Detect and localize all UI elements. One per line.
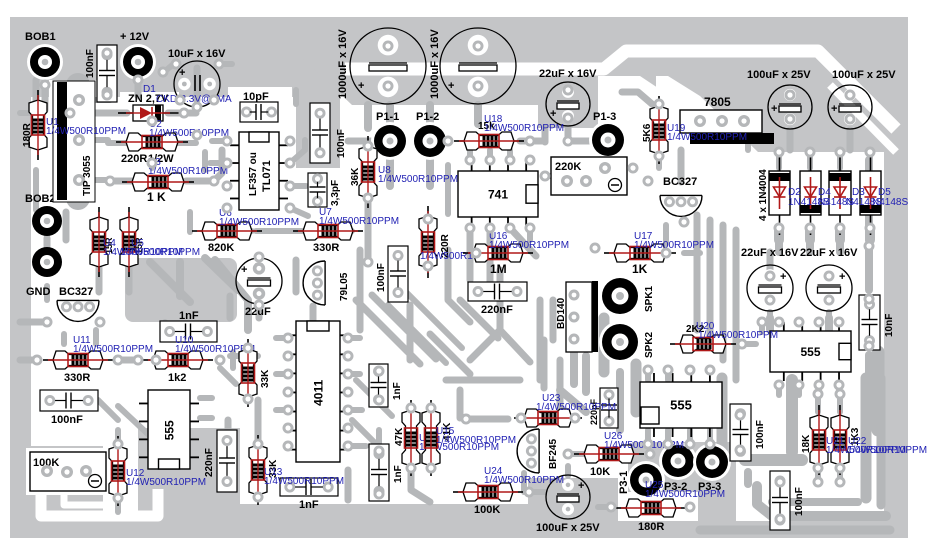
regulator 7805 — [680, 110, 762, 133]
wire segment 3 — [135, 78, 142, 96]
wire segment 77 — [20, 357, 37, 364]
wire segment 155 — [202, 152, 208, 170]
svg-text:1/4W500R10PPM: 1/4W500R10PPM — [484, 475, 564, 486]
svg-text:100nF: 100nF — [85, 49, 96, 78]
wire segment 31 — [215, 260, 248, 330]
wire segment 147 — [61, 334, 67, 344]
via pad (348,446) — [343, 441, 354, 452]
svg-text:+: + — [179, 67, 185, 79]
pad P1-3 — [589, 121, 627, 159]
via pad (118,498) — [113, 493, 124, 504]
resistor U5 — [120, 207, 138, 277]
wire segment 179 — [806, 240, 814, 252]
svg-text:SPK1: SPK1 — [644, 285, 655, 312]
wire segment 153 — [63, 212, 70, 240]
capacitor 10uF 16V — [174, 61, 220, 107]
wire segment 23 — [300, 228, 352, 234]
wire segment 36 — [467, 150, 473, 160]
via pad (779,322) — [774, 317, 785, 328]
svg-text:100nF: 100nF — [794, 487, 805, 516]
svg-text:1k2: 1k2 — [168, 372, 186, 384]
via pad (163,72) — [158, 67, 169, 78]
svg-text:220K: 220K — [555, 161, 581, 173]
via pad (118,360) — [113, 355, 124, 366]
via pad (288,410) — [283, 405, 294, 416]
wire segment 170 — [787, 130, 794, 150]
wire segment 63 — [407, 305, 414, 360]
trimmer 100K — [30, 452, 106, 491]
copper plane around big caps — [302, 50, 656, 128]
via pad (829,300) — [824, 295, 835, 306]
via pad (476,253) — [471, 248, 482, 259]
wire segment 51 — [837, 152, 843, 160]
wire segment 35 — [44, 238, 51, 246]
svg-text:1K: 1K — [632, 262, 648, 276]
wire segment 172 — [767, 312, 773, 318]
via pad (810,152) — [805, 147, 816, 158]
resistor U17 1K — [604, 244, 676, 262]
via pad (227,141) — [222, 136, 233, 147]
svg-text:+ 12V: + 12V — [120, 31, 150, 43]
wire segment 104 — [836, 385, 842, 395]
wire segment 109 — [865, 160, 873, 240]
wire segment 92 — [598, 504, 611, 510]
via pad (107,95) — [102, 90, 113, 101]
wire segment 154 — [187, 212, 193, 232]
wire segment 102 — [796, 385, 802, 395]
via pad (742,344) — [737, 339, 748, 350]
pad P1-1 — [371, 122, 409, 160]
via pad (348,428) — [343, 423, 354, 434]
via pad (648,370) — [643, 365, 654, 376]
via pad (70,113) — [65, 108, 76, 119]
via pad (770,300) — [765, 295, 776, 306]
wire segment 140 — [352, 420, 380, 448]
wire segment 143 — [256, 304, 263, 318]
timer 555 middle — [640, 382, 722, 428]
via pad (288,428) — [283, 423, 294, 434]
resistor U20 2K2 — [670, 335, 736, 353]
svg-text:1/4W500R10PPM: 1/4W500R10PPM — [319, 216, 399, 227]
wire segment 42 — [545, 173, 551, 179]
wire segment 168 — [678, 150, 685, 182]
via pad (466,419) — [461, 414, 472, 425]
svg-text:79L05: 79L05 — [339, 272, 350, 301]
capacitor 3.3pF — [308, 173, 327, 207]
resistor U14 47K — [402, 400, 420, 476]
svg-text:+: + — [241, 264, 247, 276]
via pad (568,118) — [563, 113, 574, 124]
via pad (428,266) — [423, 261, 434, 272]
via pad (248,399) — [243, 394, 254, 405]
resistor U15 41K — [422, 400, 440, 476]
wire segment 116 — [757, 486, 886, 516]
pad SPK1 — [599, 275, 641, 317]
capacitor 22uF 16V top — [546, 82, 590, 126]
white pocket TIP3055 — [49, 80, 98, 140]
capacitor 220nF mid — [468, 282, 527, 301]
pad BOB1 — [27, 44, 63, 80]
svg-text:180R: 180R — [638, 521, 664, 533]
via pad (379,494) — [374, 489, 385, 500]
wire segment 127 — [582, 356, 590, 392]
wire segment 119 — [700, 526, 890, 535]
resistor 220R vertical — [419, 206, 437, 278]
wire segment 47 — [663, 225, 669, 244]
copper plane upper mid-left — [125, 258, 237, 322]
wire segment 160 — [364, 105, 372, 128]
wire segment 107 — [815, 468, 821, 482]
svg-text:BOB1: BOB1 — [25, 31, 56, 43]
wire segment 13 — [445, 165, 451, 214]
via pad (740,450) — [735, 445, 746, 456]
wire segment 90 — [521, 473, 527, 492]
capacitor 100nF top-left — [97, 45, 117, 102]
wire segment 84 — [345, 470, 352, 500]
via pad (810,228) — [805, 223, 816, 234]
wire segment 54 — [805, 228, 815, 240]
via pad (530,160) — [525, 155, 536, 166]
resistor U18 15k — [454, 132, 524, 150]
via pad (510,228) — [505, 223, 516, 234]
via pad (290,208) — [285, 203, 296, 214]
capacitor 100nF botleft — [40, 390, 98, 411]
wire segment 145 — [33, 170, 39, 210]
via pad (790,119) — [785, 114, 796, 125]
via pad (259,257) — [254, 252, 265, 263]
capacitor 100nF right2 — [770, 471, 790, 530]
wire segment 183 — [227, 296, 234, 318]
wire segment 39 — [467, 228, 473, 240]
capacitor 10nF right — [859, 295, 880, 350]
wire segment 178 — [775, 240, 783, 252]
wire segment 24 — [365, 198, 372, 262]
via pad (780,482) — [775, 477, 786, 488]
svg-text:1/4W500R10PPM: 1/4W500R10PPM — [489, 240, 569, 251]
wire segment 61 — [616, 372, 624, 430]
wire segment 26 — [426, 160, 434, 186]
wire segment 83 — [255, 400, 262, 440]
wire segment 131 — [460, 300, 498, 338]
via pad (780,519) — [775, 514, 786, 525]
wire segment 44 — [707, 220, 714, 340]
via pad (176,64) — [171, 59, 182, 70]
svg-text:100nF: 100nF — [755, 420, 766, 449]
svg-text:1/4W500R10PPM: 1/4W500R10PPM — [126, 477, 206, 488]
via pad (839,322) — [834, 317, 845, 328]
svg-text:BOB2: BOB2 — [25, 193, 56, 205]
copper plane right border — [884, 17, 908, 537]
svg-text:1/4W500R10PPM: 1/4W500R10PPM — [148, 166, 228, 177]
via pad (611,507) — [606, 502, 617, 513]
wire segment 52 — [867, 152, 873, 160]
wire segment 120 — [772, 498, 858, 506]
wire segment 101 — [776, 385, 782, 395]
copper plane top band full — [10, 17, 908, 52]
svg-text:+: + — [839, 271, 845, 283]
wire segment 125 — [550, 300, 557, 340]
via pad (530,141) — [525, 136, 536, 147]
via pad (666,253) — [661, 248, 672, 259]
wire segment 25 — [386, 160, 394, 186]
op-amp LF357/TL071 — [239, 132, 279, 210]
via pad (490,160) — [485, 155, 496, 166]
svg-text:TL071: TL071 — [261, 160, 273, 192]
wire segment 100 — [759, 322, 765, 332]
resistor U21 18K — [810, 405, 828, 475]
via pad (348,392) — [343, 387, 354, 398]
svg-text:100nF: 100nF — [376, 263, 387, 292]
diode D4 — [810, 151, 812, 235]
via pad (288,392) — [283, 387, 294, 398]
svg-text:1M: 1M — [490, 262, 507, 276]
wire segment 162 — [426, 105, 434, 122]
copper plane top-left band — [10, 17, 340, 97]
via pad (799,385) — [794, 380, 805, 391]
via pad (568,90) — [563, 85, 574, 96]
capacitor 22uF 16V right — [806, 265, 852, 311]
via pad (411,468) — [406, 463, 417, 474]
svg-text:1/4W500R10PPM: 1/4W500R10PPM — [847, 445, 927, 456]
svg-text:LF357 ou: LF357 ou — [248, 152, 259, 196]
via pad (37,360) — [32, 355, 43, 366]
svg-text:P1-2: P1-2 — [416, 111, 439, 123]
white clearance 100K trimmer — [26, 448, 112, 495]
wire segment 148 — [93, 330, 99, 344]
regulator 79L05 — [303, 261, 325, 305]
via pad (710,444) — [705, 439, 716, 450]
copper plane around P3 connector — [628, 442, 736, 537]
resistor U8 36K — [359, 136, 377, 208]
via pad (840,228) — [835, 223, 846, 234]
wire segment 80 — [115, 498, 121, 512]
pad +12V — [120, 44, 156, 80]
via pad (779,228) — [774, 223, 785, 234]
wire segment 57 — [766, 318, 774, 330]
via pad (368,198) — [363, 193, 374, 204]
wire segment 46 — [733, 230, 740, 380]
svg-text:+: + — [771, 103, 777, 115]
wire segment 50 — [807, 152, 813, 160]
svg-text:1/4W500R10PPM: 1/4W500R10PPM — [436, 435, 516, 446]
wire segment 149 — [20, 110, 36, 116]
wire segment 175 — [807, 160, 813, 168]
wire segment 152 — [92, 177, 106, 183]
via pad (818,482) — [813, 477, 824, 488]
wire segment 157 — [164, 62, 176, 72]
via pad (770,276) — [765, 271, 776, 282]
wire segment 156 — [42, 80, 49, 96]
via pad (368,262) — [363, 257, 374, 268]
wire segment 115 — [745, 454, 802, 466]
via pad (388,86) — [383, 81, 394, 92]
wire segment 189 — [220, 368, 236, 384]
wire segment 176 — [837, 160, 843, 168]
resistor 33K vertical — [239, 339, 257, 407]
via pad (47,322) — [42, 317, 53, 328]
resistor U6 820K — [192, 222, 262, 240]
via pad (529,492) — [524, 487, 535, 498]
svg-text:100nF: 100nF — [51, 414, 83, 426]
svg-text:+: + — [578, 480, 584, 492]
wire segment 103 — [816, 385, 822, 395]
wire segment 22 — [256, 228, 300, 234]
via pad (690,507) — [685, 502, 696, 513]
via pad (379,451) — [374, 446, 385, 457]
diode D5 — [870, 151, 872, 235]
wire segment 141 — [310, 306, 317, 330]
wire segment 187 — [98, 400, 118, 420]
svg-text:1/4W500R10PPM: 1/4W500R10PPM — [264, 476, 344, 487]
wire segment 173 — [826, 312, 832, 320]
svg-text:P1-1: P1-1 — [376, 111, 399, 123]
via pad (227,208) — [222, 203, 233, 214]
pad P3-3 — [693, 443, 731, 481]
via pad (870,228) — [865, 223, 876, 234]
capacitor 100nF mid1 — [310, 103, 330, 163]
svg-text:1/4W500R10PPM: 1/4W500R10PPM — [73, 344, 153, 355]
svg-text:+: + — [550, 108, 556, 120]
via pad (869,246) — [864, 241, 875, 252]
wire segment 164 — [542, 128, 549, 142]
via pad (510,160) — [505, 155, 516, 166]
via pad (850,119) — [845, 114, 856, 125]
via pad (288,446) — [283, 441, 294, 452]
wire segment 15 — [214, 150, 222, 181]
capacitor 22uF — [236, 258, 282, 304]
svg-text:1nF: 1nF — [299, 499, 319, 511]
transistor TIP3055 — [53, 81, 95, 202]
wire segment 72 — [348, 371, 360, 377]
wire segment 1 — [66, 85, 90, 198]
via pad (197,135) — [192, 130, 203, 141]
wire segment 37 — [487, 150, 493, 160]
wire segment 137 — [388, 305, 446, 363]
wire segment 68 — [276, 335, 288, 341]
svg-text:36K: 36K — [350, 167, 361, 186]
wire segment 41 — [527, 228, 533, 240]
svg-text:BC327: BC327 — [663, 176, 697, 188]
wire segment 91 — [568, 451, 590, 457]
svg-text:1/4W500R10PPM: 1/4W500R10PPM — [46, 126, 126, 137]
resistor U16 1M — [463, 244, 533, 262]
svg-text:180R: 180R — [22, 122, 33, 147]
via pad (138,80) — [133, 75, 144, 86]
capacitor 1000uF #2 — [440, 28, 516, 104]
svg-text:18K: 18K — [801, 434, 812, 453]
svg-text:4011: 4011 — [311, 380, 325, 406]
via pad (290,186) — [285, 181, 296, 192]
via pad (138,360) — [133, 355, 144, 366]
capacitor 100nF mid2 — [388, 246, 408, 302]
via pad (288,356) — [283, 351, 294, 362]
via pad (819,385) — [814, 380, 825, 391]
transistor BC327 left — [57, 300, 99, 321]
via pad (790,95) — [785, 90, 796, 101]
diode D3 — [839, 151, 841, 235]
wire segment 182 — [205, 258, 238, 290]
wire segment 88 — [529, 489, 545, 495]
via pad (227,186) — [222, 181, 233, 192]
wire segment 135 — [356, 300, 420, 364]
svg-text:1/4W500R10PPM: 1/4W500R10PPM — [667, 132, 747, 143]
capacitor 1nF mid-v2 — [369, 444, 389, 501]
svg-text:10pF: 10pF — [243, 91, 269, 103]
resistor U2 220R 1/2W — [116, 133, 188, 151]
via pad (659,156) — [654, 151, 665, 162]
via pad (690,370) — [685, 365, 696, 376]
via pad (710,370) — [705, 365, 716, 376]
via pad (259,305) — [254, 300, 265, 311]
wire segment 142 — [293, 260, 300, 292]
via pad (648,181) — [643, 176, 654, 187]
via pad (220,360) — [215, 355, 226, 366]
wire segment 60 — [631, 364, 642, 412]
svg-text:1 K: 1 K — [147, 190, 166, 204]
wire segment 76 — [118, 357, 140, 364]
wire segment 81 — [200, 395, 212, 401]
wire segment 132 — [430, 334, 470, 374]
wire segment 159 — [293, 90, 299, 104]
IC 4011 — [296, 321, 340, 462]
white channel U12 — [103, 426, 138, 516]
via pad (668,444) — [663, 439, 674, 450]
white pocket P1-3 region — [598, 76, 664, 152]
wire segment 20 — [290, 208, 308, 216]
via pad (118,444) — [113, 439, 124, 450]
wire segment 4 — [104, 53, 110, 95]
wire segment 6 — [168, 110, 196, 117]
via pad (156,360) — [151, 355, 162, 366]
white routing stripe through caps — [345, 51, 896, 129]
wire segment 98 — [665, 370, 671, 380]
resistor U7 330R — [293, 222, 363, 240]
wire segment 171 — [847, 130, 854, 150]
wire segment 12 — [176, 140, 196, 146]
via pad (869,299) — [864, 294, 875, 305]
svg-text:10K: 10K — [590, 466, 610, 478]
svg-text:7805: 7805 — [704, 95, 731, 109]
resistor U26 10K — [574, 445, 644, 463]
wire segment 123 — [487, 232, 494, 284]
svg-text:BD140: BD140 — [556, 297, 567, 329]
via pad (197,107) — [192, 102, 203, 113]
via pad (668,370) — [663, 365, 674, 376]
via pad (595,248) — [590, 243, 601, 254]
via pad (184,113) — [179, 108, 190, 119]
wire segment 21 — [240, 228, 252, 234]
wire segment 180 — [836, 240, 844, 252]
svg-text:GND: GND — [26, 286, 51, 298]
svg-text:BF245: BF245 — [548, 439, 559, 469]
wire segment 53 — [774, 228, 784, 240]
svg-text:220R: 220R — [121, 153, 147, 165]
wire segment 86 — [411, 470, 430, 502]
wire segment 121 — [744, 472, 752, 484]
via pad (839,385) — [834, 380, 845, 391]
via pad (869,346) — [864, 341, 875, 352]
wire segment 87 — [466, 416, 508, 423]
svg-text:555: 555 — [800, 345, 820, 359]
wire segment 18 — [290, 140, 305, 163]
via pad (248,348) — [243, 343, 254, 354]
via pad (288,338) — [283, 333, 294, 344]
capacitor 220nF botleft — [217, 430, 237, 492]
capacitor 100uF 25V #2 — [828, 85, 872, 129]
trimmer 220K — [551, 157, 627, 195]
wire segment 133 — [446, 377, 520, 384]
pad SPK2 — [599, 321, 641, 363]
